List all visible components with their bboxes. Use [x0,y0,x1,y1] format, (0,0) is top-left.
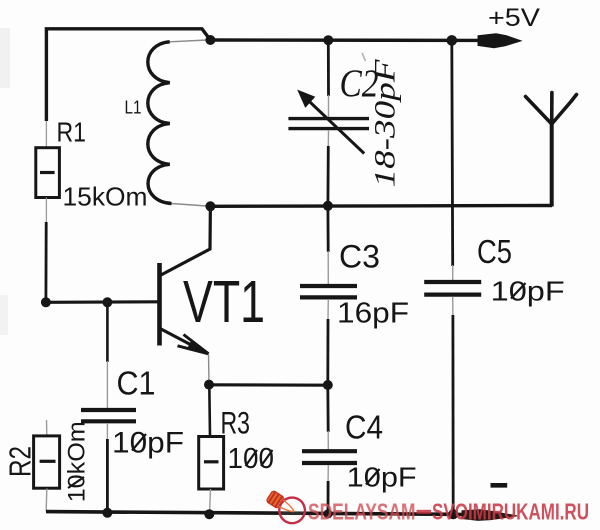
capacitor C2 bottom plate [288,127,369,130]
capacitor C4 top plate [302,449,357,453]
node dot coil top [205,35,215,45]
capacitor C4 bottom plate [302,461,357,465]
svg-text:R2: R2 [2,446,37,477]
node dot C1 top [102,297,112,307]
wire C4 branch lower [327,481,330,514]
label minus terminal [491,483,508,488]
svg-text:SDELAYSAM: SDELAYSAM [308,499,416,525]
wire C1 branch thin to plate [106,361,108,408]
resistor R2 body [34,436,60,488]
wire left vertical to base node [45,222,48,302]
svg-text:SVOIMIRUKAMI.RU: SVOIMIRUKAMI.RU [432,499,589,525]
transistor VT1 emitter arrowhead [189,341,209,354]
resistor R3 body [199,437,224,490]
wire emitter down to node [208,354,211,385]
svg-text:R3: R3 [221,405,251,441]
wire C3 below thin [327,299,329,320]
wire C4 branch upper [326,385,329,432]
capacitor C2 adjust arrowhead [299,91,314,107]
capacitor C2 top plate [288,117,369,120]
capacitor C5 top plate [424,280,481,284]
svg-text:10kOm: 10kOm [63,421,90,502]
svg-text:+5V: +5V [488,4,540,32]
coil top stub thin [170,40,207,42]
watermark bulb icon [262,485,309,528]
svg-text:16pF: 16pF [337,298,409,330]
wire C3 thin to plate [327,251,329,284]
wire ground bottom rail [46,512,464,515]
svg-text:10pF: 10pF [347,462,417,493]
capacitor C3 top plate [300,284,357,288]
svg-text:10pF: 10pF [491,276,565,307]
capacitor C2 adjust arrow shaft [302,95,364,154]
node dot base left [41,297,51,307]
wire C2 branch upper [327,40,330,96]
wire C5 thin to plate [452,265,454,280]
wire emitter node to C3/C4 node [209,383,328,387]
wire C3 branch lower [326,319,329,385]
svg-text:VT1: VT1 [183,269,265,335]
capacitor C3 bottom plate [300,295,357,299]
wire below R1 thin [45,198,47,224]
inductor L1 coil [148,42,172,204]
watermark strike line [417,510,432,514]
svg-text:15kOm: 15kOm [63,182,148,212]
wire C5 branch upper from +5V [450,40,454,266]
wire top: coil-top junction to +5V junction [210,38,480,42]
node dot C2 bottom [323,201,333,211]
ground rail end arrow [462,510,517,521]
node dot coil bottom [205,201,215,211]
svg-text:C4: C4 [345,408,383,445]
scan speck near top wire [362,53,366,61]
transistor VT1 collector wire [160,206,210,275]
wire R2 below thin [45,489,48,512]
resistor R3 dash [204,460,219,463]
capacitor C1 bottom plate [81,419,136,423]
wire C5 below thin [452,297,454,317]
wire C1 branch upper [106,302,109,362]
wire C4 below thin [327,465,329,482]
transistor VT1 emitter arrow barb [184,335,209,354]
svg-text:R1: R1 [57,116,87,147]
capacitor C1 top plate [81,408,136,412]
wire C3 branch upper [326,206,329,252]
wire left vertical thin above R1 [45,121,47,148]
capacitor C5 bottom plate [424,293,481,297]
svg-text:C1: C1 [117,365,156,402]
label 100 zero slashes [246,450,273,466]
node dot emitter [204,380,214,390]
wire C2 branch lower [326,146,329,206]
antenna stem [550,123,554,207]
transistor VT1 base wire [46,300,158,304]
wire C2 thin to plate [328,95,330,117]
wire C1 branch lower [106,439,109,513]
node dot +5V [447,35,458,46]
resistor R2 dash [40,460,56,463]
node dot R3 bottom [204,509,214,519]
svg-text:10pF: 10pF [112,427,184,460]
label C5 10pF zero slash [511,283,526,299]
antenna left prong [526,97,552,125]
coil bottom stub thin [172,204,208,207]
node dot C1 bottom [102,508,112,518]
svg-text:C3: C3 [339,239,380,275]
scan smudge left mid [0,295,8,335]
svg-text:L1: L1 [125,97,142,117]
antenna right prong [552,95,577,125]
node dot C2 top [323,35,333,45]
node dot C5 bottom [448,509,458,519]
wire C4 thin to plate [327,431,329,449]
wire below R3 thin [210,489,211,514]
node dot C3 bottom [323,380,333,390]
svg-text:18-30pF: 18-30pF [369,59,402,188]
label C4 10pF zero slash [366,469,380,485]
transistor VT1 base bar [157,263,162,346]
wire tank output: coil bottom across to antenna corner [210,204,552,208]
resistor R1 dash [40,171,55,174]
svg-text:C5: C5 [477,233,512,270]
+5V supply arrow [478,34,521,48]
wire top-left: corner from R1 up and across to coil top [46,29,210,121]
wire C5 branch lower [451,315,454,514]
wire C1 below thin [106,423,108,440]
scan smudge left upper [0,28,10,88]
node dot C4 bottom [323,509,332,518]
transistor VT1 emitter wire with arrow [160,329,208,354]
antenna middle prong [550,93,554,125]
wire R2 branch thin above [46,420,48,436]
label 10kOm zero slash [68,477,84,488]
resistor R1 body [36,148,60,198]
wire emitter node down to R3 [208,385,211,437]
label C1 10pF zero slash [132,434,146,451]
capacitor C2 thin below plate [327,130,329,147]
